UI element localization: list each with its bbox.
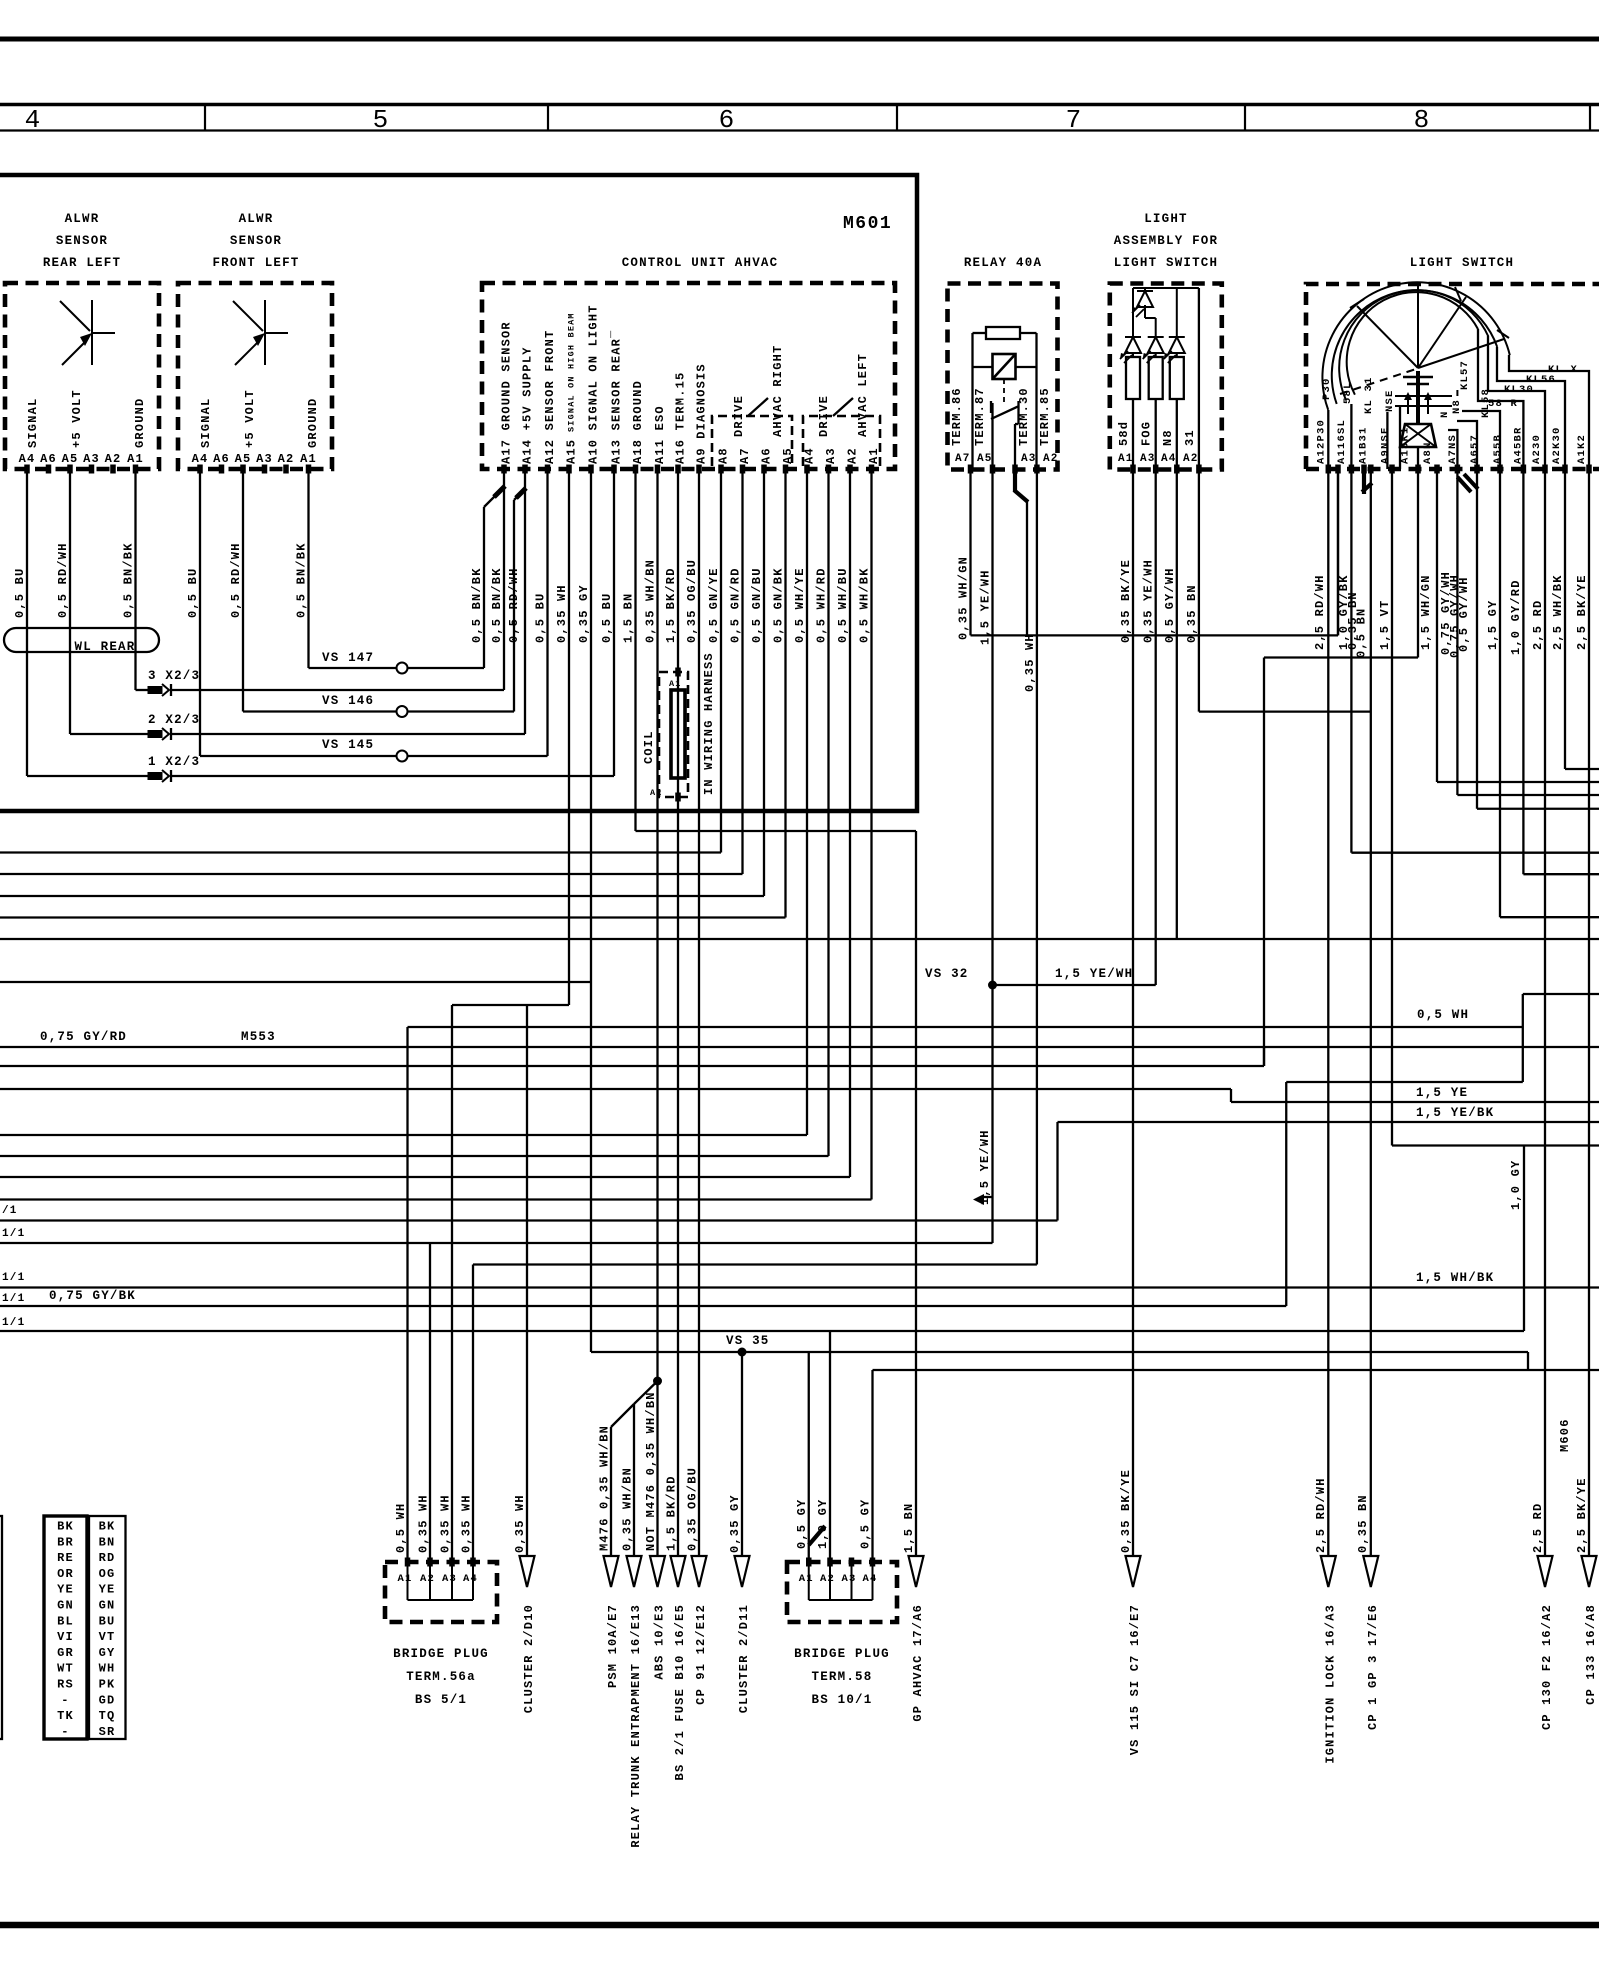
svg-text:BRIDGE PLUG: BRIDGE PLUG — [794, 1647, 890, 1661]
svg-text:1/1: 1/1 — [2, 1228, 25, 1240]
svg-text:A13K1: A13K1 — [1400, 426, 1412, 464]
svg-text:-: - — [61, 1725, 69, 1739]
svg-text:KL57: KL57 — [1459, 360, 1471, 390]
wire A11 0,35 WH/BN ESO — [656, 469, 658, 1556]
branch of GY/RD line down to return line — [1263, 1047, 1265, 1066]
svg-text:0,5 RD/WH: 0,5 RD/WH — [56, 542, 70, 618]
svg-text:0,5 BN/BK: 0,5 BN/BK — [470, 567, 484, 643]
svg-text:BL: BL — [57, 1614, 74, 1628]
svg-text:0,5 RD/WH: 0,5 RD/WH — [507, 567, 521, 643]
svg-text:0,35 BN: 0,35 BN — [1185, 584, 1199, 643]
svg-text:0,75 GY/BK: 0,75 GY/BK — [49, 1289, 136, 1303]
svg-text:A17 GROUND SENSOR: A17 GROUND SENSOR — [500, 321, 514, 464]
wire A2 0,5 WH/BU drive — [849, 469, 851, 1177]
svg-text:2,5 WH/BK: 2,5 WH/BK — [1551, 574, 1565, 650]
svg-text:GROUND: GROUND — [133, 398, 147, 448]
svg-text:0,5 WH: 0,5 WH — [394, 1503, 408, 1553]
svg-text:A4: A4 — [803, 447, 817, 464]
svg-text:A3: A3 — [824, 447, 838, 464]
svg-text:-: - — [61, 1693, 69, 1707]
vertical link YE/BK to left bus — [1056, 1122, 1058, 1221]
terminal arrow CP 91 12/E12 — [692, 1556, 707, 1587]
svg-text:CP 1 GP 3 17/E6: CP 1 GP 3 17/E6 — [1366, 1604, 1380, 1730]
svg-text:0,5 BN/BK: 0,5 BN/BK — [122, 542, 136, 618]
svg-text:0,35 BK/YE: 0,35 BK/YE — [1119, 1469, 1133, 1553]
svg-text:N: N — [1439, 410, 1451, 418]
wire relay A2 0,35 WH term85 — [1036, 469, 1038, 1265]
relay switch contacts — [971, 367, 973, 403]
svg-text:1,5 BK/RD: 1,5 BK/RD — [665, 1475, 679, 1551]
svg-text:1,0 GY: 1,0 GY — [816, 1499, 830, 1549]
svg-text:TERM.58: TERM.58 — [812, 1670, 873, 1684]
svg-text:SENSOR: SENSOR — [230, 234, 282, 248]
svg-text:0,5 GY: 0,5 GY — [795, 1499, 809, 1549]
node VS 32 — [988, 981, 997, 990]
svg-text:A1: A1 — [799, 1573, 814, 1585]
svg-text:GR: GR — [57, 1646, 74, 1660]
svg-text:NOT M476 0,35 WH/BN: NOT M476 0,35 WH/BN — [644, 1391, 658, 1551]
svg-text:BN: BN — [99, 1535, 116, 1549]
wire A17 diagonal branch 0,5 BN/BK — [484, 495, 496, 507]
A7NS double hook — [1457, 477, 1471, 492]
svg-text:A2: A2 — [278, 452, 295, 466]
svg-text:1,5 GY: 1,5 GY — [1486, 600, 1500, 650]
svg-text:GY: GY — [99, 1646, 116, 1660]
relay coil dashed actuator line — [1003, 379, 1005, 403]
svg-text:0,5 BU: 0,5 BU — [534, 593, 548, 643]
svg-text:58 R: 58 R — [1488, 398, 1518, 410]
branch 0,35 WH to bridge plug A2 — [429, 1243, 431, 1562]
svg-text:1/1: 1/1 — [2, 1272, 25, 1284]
svg-text:A2: A2 — [105, 452, 122, 466]
wire control A14 down — [524, 469, 526, 734]
svg-text:0,5 BN: 0,5 BN — [1355, 608, 1369, 658]
svg-text:0,35 WH/BN: 0,35 WH/BN — [644, 559, 658, 643]
svg-text:0,5 BN/BK: 0,5 BN/BK — [295, 542, 309, 618]
svg-text:0,5 WH: 0,5 WH — [1417, 1008, 1469, 1022]
svg-text:TK: TK — [57, 1709, 74, 1723]
svg-text:A14 +5V SUPPLY: A14 +5V SUPPLY — [521, 346, 535, 464]
svg-text:FOG: FOG — [1140, 421, 1154, 446]
svg-text:A6: A6 — [760, 447, 774, 464]
svg-text:1,5 YE/WH: 1,5 YE/WH — [978, 1129, 992, 1205]
wire light switch 1,5 GY — [1499, 469, 1501, 917]
svg-text:PK: PK — [99, 1678, 116, 1692]
colour legend code box — [44, 1516, 87, 1739]
svg-text:TERM.56a: TERM.56a — [406, 1670, 476, 1684]
terminal arrow ABS 10/E3 — [650, 1556, 665, 1587]
svg-text:0,35 GY: 0,35 GY — [728, 1494, 742, 1553]
svg-text:0,35 WH: 0,35 WH — [1023, 633, 1037, 692]
wire A15 jog to bridge plug A3 — [452, 1004, 569, 1006]
colour legend left box — [0, 1516, 2, 1739]
svg-text:0,5 BU: 0,5 BU — [186, 568, 200, 618]
svg-text:A2K30: A2K30 — [1551, 426, 1563, 464]
node VS 146 wire front A5 to control A14 — [243, 710, 514, 712]
svg-text:GP AHVAC 17/A6: GP AHVAC 17/A6 — [911, 1604, 925, 1722]
svg-text:VS 145: VS 145 — [322, 738, 374, 752]
svg-text:M476 0,35 WH/BN: M476 0,35 WH/BN — [598, 1425, 612, 1551]
svg-text:+5 VOLT: +5 VOLT — [243, 389, 257, 448]
svg-text:SIGNAL: SIGNAL — [199, 398, 213, 448]
terminal arrow CLUSTER 2/D10 — [520, 1556, 535, 1587]
svg-text:0,35 YE/WH: 0,35 YE/WH — [1142, 559, 1156, 643]
bus line 0,75 GY/RD M553 — [0, 1046, 1599, 1048]
wire light switch 2,5 BK/YE to CP 133 — [1588, 469, 1590, 1556]
svg-text:REAR LEFT: REAR LEFT — [43, 256, 121, 270]
line 0,5 GY to page right — [873, 1369, 1599, 1371]
svg-text:0,5 GY/WH: 0,5 GY/WH — [1163, 567, 1177, 643]
svg-text:7: 7 — [1066, 105, 1083, 135]
svg-text:A55B: A55B — [1492, 434, 1504, 464]
relay coil symbol — [993, 354, 1016, 379]
svg-text:PSM 10A/E7: PSM 10A/E7 — [606, 1604, 620, 1688]
column header band — [0, 103, 1599, 107]
svg-text:8: 8 — [1414, 105, 1431, 135]
svg-text:BS 10/1: BS 10/1 — [812, 1693, 873, 1707]
svg-text:A1B31: A1B31 — [1358, 426, 1370, 464]
svg-text:A3: A3 — [442, 1573, 457, 1585]
right side 0,5 WH chain — [1286, 1081, 1523, 1083]
svg-text:WH: WH — [99, 1662, 116, 1676]
wire control A13 down 0,5 BU to 1 X2/3 line — [613, 469, 615, 776]
svg-text:0,5 GN/BK: 0,5 GN/BK — [772, 567, 786, 643]
wire rear sensor A1 ground 0,5 BN/BK — [134, 469, 136, 690]
svg-text:SR: SR — [99, 1725, 116, 1739]
wire front sensor A1 ground 0,5 BN/BK — [307, 469, 309, 668]
ignition key symbol — [1403, 376, 1433, 379]
svg-text:ABS 10/E3: ABS 10/E3 — [653, 1604, 667, 1680]
svg-text:M601: M601 — [843, 214, 892, 234]
bus line y1331 with branches — [0, 1330, 1524, 1332]
svg-text:2,5 RD/WH: 2,5 RD/WH — [1313, 574, 1327, 650]
wire A16 1,5 BK/RD term15 — [677, 469, 679, 1556]
svg-text:1,5 WH/GN: 1,5 WH/GN — [1419, 574, 1433, 650]
svg-text:RS: RS — [57, 1678, 74, 1692]
connection arrow on A1 line — [973, 1194, 984, 1205]
svg-text:M606: M606 — [1558, 1418, 1572, 1452]
svg-text:YE: YE — [57, 1583, 74, 1597]
svg-text:BU: BU — [99, 1614, 116, 1628]
svg-text:A1: A1 — [300, 452, 317, 466]
junction and branches for WH/BN wires — [653, 1377, 662, 1386]
svg-text:RE: RE — [57, 1551, 74, 1565]
svg-text:A13 SENSOR REAR¯: A13 SENSOR REAR¯ — [610, 330, 624, 464]
svg-text:0,35 GY: 0,35 GY — [577, 584, 591, 643]
svg-text:A1K2: A1K2 — [1576, 434, 1588, 464]
svg-text:GD: GD — [99, 1693, 116, 1707]
svg-text:A2: A2 — [820, 1573, 835, 1585]
svg-text:2,5 RD: 2,5 RD — [1531, 1503, 1545, 1553]
connector 2 X2/3 and wire to rear A5 — [70, 733, 148, 735]
node VS 147 wire front A1 to control A17 — [309, 667, 485, 669]
sensor symbol (rear) — [91, 300, 93, 365]
svg-text:M553: M553 — [241, 1030, 276, 1044]
svg-text:OG: OG — [99, 1567, 116, 1581]
bus line 1,5 WH/BK full span — [0, 1286, 1599, 1288]
svg-text:2,5 BK/YE: 2,5 BK/YE — [1575, 574, 1589, 650]
light switch internal contact rails — [1395, 395, 1452, 397]
svg-text:A11 ESO: A11 ESO — [653, 405, 667, 464]
terminal arrow VS 115 SI C7 16/E7 — [1126, 1556, 1141, 1587]
svg-text:0,5 BN/BK: 0,5 BN/BK — [490, 567, 504, 643]
svg-text:RELAY 40A: RELAY 40A — [964, 256, 1042, 270]
svg-text:GN: GN — [57, 1599, 74, 1613]
svg-text:YE: YE — [99, 1583, 116, 1597]
wire relay A7 0,35 WH/GN — [969, 469, 971, 635]
wire light switch 1,5 WH/GN — [1436, 469, 1438, 782]
svg-text:FRONT LEFT: FRONT LEFT — [212, 256, 299, 270]
svg-text:A45BR: A45BR — [1513, 426, 1525, 464]
svg-text:0,35 WH/BN: 0,35 WH/BN — [621, 1467, 635, 1551]
bus line y939 full span — [0, 938, 1599, 940]
connector 1 X2/3 and wire to rear A4 — [27, 775, 148, 777]
svg-text:1,0 GY: 1,0 GY — [1509, 1160, 1523, 1210]
bridge plug TERM.58 box — [787, 1562, 897, 1622]
svg-text:WL REAR: WL REAR — [75, 640, 136, 654]
connector 3 X2/3 and wire to rear A1 — [136, 689, 149, 691]
svg-text:0,5 WH/BK: 0,5 WH/BK — [858, 567, 872, 643]
wire A10 0,35 GY signal on light — [590, 469, 592, 1352]
wire A3 0,5 WH/RD drive — [827, 469, 829, 1156]
svg-text:A12 SENSOR FRONT: A12 SENSOR FRONT — [543, 330, 557, 464]
svg-text:1,5 WH/BK: 1,5 WH/BK — [1416, 1271, 1494, 1285]
svg-text:BS 2/1 FUSE B10 16/E5: BS 2/1 FUSE B10 16/E5 — [673, 1604, 687, 1780]
svg-text:CP 133 16/A8: CP 133 16/A8 — [1584, 1604, 1598, 1705]
svg-text:LIGHT: LIGHT — [1144, 212, 1188, 226]
terminal arrow CP 133 16/A8 — [1582, 1556, 1597, 1587]
svg-text:TERM.30: TERM.30 — [1017, 387, 1031, 446]
svg-text:A1: A1 — [1118, 453, 1134, 465]
net term86 line to light switch 58L — [971, 634, 1339, 636]
ALWR sensor front left box — [178, 283, 332, 469]
relay 40A box — [948, 284, 1058, 470]
svg-text:31: 31 — [1183, 429, 1197, 446]
svg-text:0,5 GN/RD: 0,5 GN/RD — [729, 567, 743, 643]
light switch radial spokes — [1357, 306, 1418, 368]
page top border — [0, 37, 1599, 42]
svg-text:A4: A4 — [19, 452, 36, 466]
svg-text:1,5 VT: 1,5 VT — [1378, 600, 1392, 650]
svg-text:0,5 RD/WH: 0,5 RD/WH — [229, 542, 243, 618]
wire light switch 2,5 WH/BK — [1564, 469, 1566, 769]
svg-text:0,35 OG/BU: 0,35 OG/BU — [685, 559, 699, 643]
svg-text:A3: A3 — [842, 1573, 857, 1585]
svg-text:IGNITION LOCK 16/A3: IGNITION LOCK 16/A3 — [1323, 1604, 1337, 1764]
svg-text:A7NS: A7NS — [1447, 434, 1459, 464]
svg-text:1,5 YE/BK: 1,5 YE/BK — [1416, 1106, 1494, 1120]
svg-text:A230: A230 — [1531, 434, 1543, 464]
wire light switch 1,0 GY/RD — [1522, 469, 1524, 874]
light switch right contact steps — [1509, 355, 1589, 469]
lamp resistors — [1126, 357, 1140, 399]
light assembly box — [1110, 284, 1222, 470]
svg-text:BR: BR — [57, 1535, 74, 1549]
wire relay A3 term30 with hook — [1013, 469, 1017, 492]
terminal arrow RELAY TRUNK ENTRAPMENT 16/E13 — [627, 1556, 642, 1587]
svg-text:A6: A6 — [213, 452, 230, 466]
svg-text:A4: A4 — [863, 1573, 878, 1585]
svg-text:4: 4 — [25, 105, 42, 135]
svg-text:A5: A5 — [235, 452, 252, 466]
svg-text:LIGHT SWITCH: LIGHT SWITCH — [1410, 256, 1514, 270]
svg-text:6: 6 — [719, 105, 736, 135]
svg-text:0,35 WH: 0,35 WH — [439, 1494, 453, 1553]
svg-text:0,35 BN: 0,35 BN — [1356, 1494, 1370, 1553]
bus line y1306 and right riser — [0, 1305, 1286, 1307]
svg-text:1,5 YE/WH: 1,5 YE/WH — [1055, 967, 1133, 981]
svg-text:1/1: 1/1 — [2, 1317, 25, 1329]
svg-text:KL 31: KL 31 — [1363, 376, 1375, 414]
wire relay 0,35 WH return to bridge plug A4 — [473, 1263, 1037, 1265]
lamp LED diodes — [1125, 337, 1141, 353]
ALWR sensor rear left box — [5, 283, 159, 469]
svg-text:A4: A4 — [192, 452, 209, 466]
wire light switch 0,75 GY/WH second — [1476, 469, 1478, 809]
svg-text:RELAY TRUNK ENTRAPMENT 16/E1: RELAY TRUNK ENTRAPMENT 16/E13 — [629, 1604, 643, 1848]
svg-text:A8N: A8N — [1422, 441, 1434, 464]
arc tick marks — [1350, 299, 1364, 308]
svg-text:LIGHT SWITCH: LIGHT SWITCH — [1114, 256, 1218, 270]
sensor symbol (front) — [264, 300, 266, 365]
svg-text:0,35 WH: 0,35 WH — [417, 1494, 431, 1553]
svg-text:RD: RD — [99, 1551, 116, 1565]
svg-text:A12P30: A12P30 — [1315, 419, 1327, 464]
wire lamp A2 0,35 BN ground — [1198, 469, 1200, 712]
wire A5 0,5 GN/BK drive — [784, 469, 786, 918]
svg-text:A116SL: A116SL — [1336, 419, 1348, 464]
wire A18 1,5 BN ground to GP AHVAC — [634, 469, 636, 831]
svg-text:1,5 YE/WH: 1,5 YE/WH — [979, 569, 993, 645]
svg-text:VI: VI — [57, 1630, 74, 1644]
svg-text:0,5 BU: 0,5 BU — [600, 593, 614, 643]
module M601 outline box — [0, 175, 917, 811]
branch wire 0,35 WH to cluster 2/D10 — [526, 1005, 528, 1556]
wire light switch N8 branch to node line — [1417, 469, 1419, 658]
svg-text:GROUND: GROUND — [306, 398, 320, 448]
svg-text:ALWR: ALWR — [65, 212, 100, 226]
svg-text:0,35 OG/BU: 0,35 OG/BU — [686, 1467, 700, 1551]
bridge 58 split diagonal — [809, 1526, 825, 1545]
bus line 1,5 YE/BK — [1058, 1121, 1599, 1123]
svg-text:KL X: KL X — [1548, 364, 1578, 376]
terminal arrow CP 130 F2 16/A2 — [1538, 1556, 1553, 1587]
colour legend translation box — [89, 1516, 126, 1739]
svg-text:A3: A3 — [1021, 453, 1037, 465]
svg-text:IN WIRING HARNESS: IN WIRING HARNESS — [702, 652, 716, 795]
svg-text:2,5 RD: 2,5 RD — [1531, 600, 1545, 650]
bus return line y1066 — [0, 1065, 1264, 1067]
svg-text:BRIDGE PLUG: BRIDGE PLUG — [393, 1647, 489, 1661]
svg-text:TERM.86: TERM.86 — [950, 387, 964, 446]
svg-text:58L: 58L — [1342, 381, 1354, 404]
svg-text:A657: A657 — [1469, 434, 1481, 464]
light switch left wires into arcs — [1327, 410, 1329, 469]
svg-text:0,5 WH/BU: 0,5 WH/BU — [836, 567, 850, 643]
branch down to bridge 58 A1 — [808, 1352, 810, 1562]
svg-text:N8: N8 — [1161, 429, 1175, 446]
WL REAR stadium label — [4, 628, 159, 652]
svg-text:A2: A2 — [1183, 453, 1199, 465]
svg-text:A9 DIAGNOSIS: A9 DIAGNOSIS — [695, 363, 709, 464]
bus line 1,5 YE with jog — [0, 1088, 1231, 1090]
wire light switch 2,5 RD/WH to ignition lock — [1327, 469, 1329, 1556]
bus line y982 to A10 — [0, 981, 591, 983]
svg-text:A7: A7 — [955, 453, 971, 465]
svg-text:VS 147: VS 147 — [322, 651, 374, 665]
control unit AHVAC connector box — [482, 283, 895, 469]
svg-text:WT: WT — [57, 1662, 74, 1676]
wire A6 0,5 GN/BU drive — [763, 469, 765, 896]
svg-text:0,5 WH/YE: 0,5 WH/YE — [793, 567, 807, 643]
svg-text:TERM.87: TERM.87 — [973, 387, 987, 446]
node VS 145 wire front A4 to control A12 — [200, 755, 548, 757]
wire light switch 1,0 GY/BK — [1350, 469, 1352, 853]
svg-text:0,35 BK/YE: 0,35 BK/YE — [1119, 559, 1133, 643]
bus line 0,5 WH to bridge plug A1 — [408, 1026, 1523, 1028]
svg-text:A18 GROUND: A18 GROUND — [631, 380, 645, 464]
svg-text:A5: A5 — [977, 453, 993, 465]
svg-text:0,5 WH/RD: 0,5 WH/RD — [815, 567, 829, 643]
svg-text:VT: VT — [99, 1630, 116, 1644]
svg-text:0,5 GY: 0,5 GY — [859, 1499, 873, 1549]
svg-text:A2: A2 — [650, 788, 663, 798]
svg-text:BK: BK — [57, 1520, 74, 1534]
svg-text:0,5 GY/WH: 0,5 GY/WH — [1457, 576, 1471, 652]
svg-text:0,35 WH: 0,35 WH — [460, 1494, 474, 1553]
svg-text:OR: OR — [57, 1567, 74, 1581]
wire 1,5 YE/WH from VS32 to page left — [0, 1242, 993, 1244]
svg-text:A6: A6 — [40, 452, 57, 466]
svg-text:58d: 58d — [1117, 421, 1131, 446]
svg-text:A2: A2 — [1043, 453, 1059, 465]
light switch dashed spoke — [1340, 369, 1416, 394]
coil element — [671, 690, 685, 778]
svg-text:BK: BK — [99, 1520, 116, 1534]
light switch rotary arcs — [1322, 282, 1509, 410]
svg-text:A1: A1 — [127, 452, 144, 466]
svg-text:0,35 WH: 0,35 WH — [555, 584, 569, 643]
wire light switch 0,35 BN / 0,5 BN with hook — [1362, 469, 1366, 494]
svg-text:AHVAC RIGHT: AHVAC RIGHT — [771, 345, 785, 437]
wire A14 diagonal branch 0,5 RD/WH — [514, 495, 519, 500]
svg-text:/1: /1 — [2, 1205, 18, 1217]
svg-text:CLUSTER 2/D10: CLUSTER 2/D10 — [522, 1604, 536, 1713]
node VS 35 and 0,5 GY line — [591, 1351, 1528, 1353]
svg-text:1,0 GY/RD: 1,0 GY/RD — [1509, 579, 1523, 655]
terminal arrow CP 1 GP 3 17/E6 — [1363, 1556, 1378, 1587]
wire A8 0,5 GN/YE drive — [720, 469, 722, 853]
coil dashed box — [659, 672, 688, 797]
svg-text:A1: A1 — [398, 1573, 413, 1585]
terminal arrow CLUSTER 2/D11 — [735, 1556, 750, 1587]
svg-text:CP 91 12/E12: CP 91 12/E12 — [694, 1604, 708, 1705]
wire control A17 down 0,5 BN/BK — [503, 469, 505, 690]
svg-text:0,5 GN/BU: 0,5 GN/BU — [750, 567, 764, 643]
svg-text:A4: A4 — [1161, 453, 1177, 465]
drive AHVAC LEFT dashed sub-box — [803, 416, 880, 466]
svg-text:A8: A8 — [717, 447, 731, 464]
wire A7 0,5 GN/RD drive — [741, 469, 743, 874]
relay resistor — [986, 327, 1020, 339]
terminal arrow BS 2/1 FUSE B10 16/E5 — [671, 1556, 686, 1587]
page bottom border — [0, 1922, 1599, 1929]
svg-text:A7: A7 — [738, 447, 752, 464]
terminal arrow GP AHVAC 17/A6 — [909, 1556, 924, 1587]
svg-text:VS 35: VS 35 — [726, 1334, 770, 1348]
svg-text:A10 SIGNAL ON LIGHT: A10 SIGNAL ON LIGHT — [587, 304, 601, 464]
wire lamp A1 0,35 BK/YE to VS 115 — [1132, 469, 1134, 1556]
